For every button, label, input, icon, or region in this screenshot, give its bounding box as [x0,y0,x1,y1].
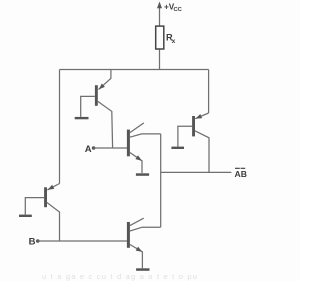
Q1 base ground [75,117,89,119]
Q1 collector wire to node A [98,101,113,148]
Q3 emitter ground [136,173,149,176]
wire right rail to Q2 emitter [208,70,210,114]
Vcc arrowhead [157,2,162,9]
Q4 base wire [25,198,44,215]
transistor Q3 NPN middle: bar [127,130,130,157]
node B input dot [36,239,40,243]
Q2 base ground [171,147,184,149]
Q5 emitter ground [136,268,149,271]
svg-text:CC: CC [174,7,183,13]
svg-text:x: x [172,38,176,45]
svg-text:u t a ga e c cu t d ag a: u t a ga e c cu t d ag a o t e t o pu [42,272,198,281]
wire output line [161,171,232,173]
Q4 emitter wire from left rail [47,184,59,190]
transistor Q1 injector PNP top-left: bar [95,85,98,106]
transistor Q5 NPN bottom: bar [127,222,130,248]
Q1 emitter arrowhead [99,84,105,90]
Q3 collector wire [130,134,161,137]
svg-text:B: B [29,237,36,248]
Q1 emitter wire from bus [99,70,111,90]
wire node A to Q3 base [94,147,127,149]
node A input dot [92,146,96,150]
wire node B to Q5 base [38,240,127,242]
resistor Rx body [156,26,164,49]
wire collector junction vertical [160,134,162,227]
Q4 emitter arrowhead [48,185,55,190]
wire resistor bottom lead [159,49,161,70]
Q5 collector wire to junction [130,227,161,231]
Q4 collector wire to node B [47,203,60,242]
Q5 emitter arrowhead [136,247,143,252]
Q4 base ground [19,215,32,217]
svg-text:AB: AB [235,169,247,179]
Q1 base wire [81,96,95,117]
Q2 emitter arrowhead [196,114,203,119]
Q3 collector stub [130,123,144,133]
Q2 base wire [178,126,192,146]
wire top bus rail [60,69,209,71]
Q2 emitter wire [195,113,208,119]
Q3 emitter wire [130,153,142,174]
Q2 collector wire to output [195,131,209,173]
Vcc supply arrow [159,7,161,27]
svg-text:A: A [85,144,92,155]
Q3 emitter arrowhead [135,155,141,160]
Q5 collector stub [130,218,144,225]
wire left rail [59,70,61,184]
transistor Q4 injector PNP bottom-left: bar [44,187,47,207]
Q5 emitter wire [130,245,143,269]
transistor Q2 injector PNP right: bar [192,116,195,136]
